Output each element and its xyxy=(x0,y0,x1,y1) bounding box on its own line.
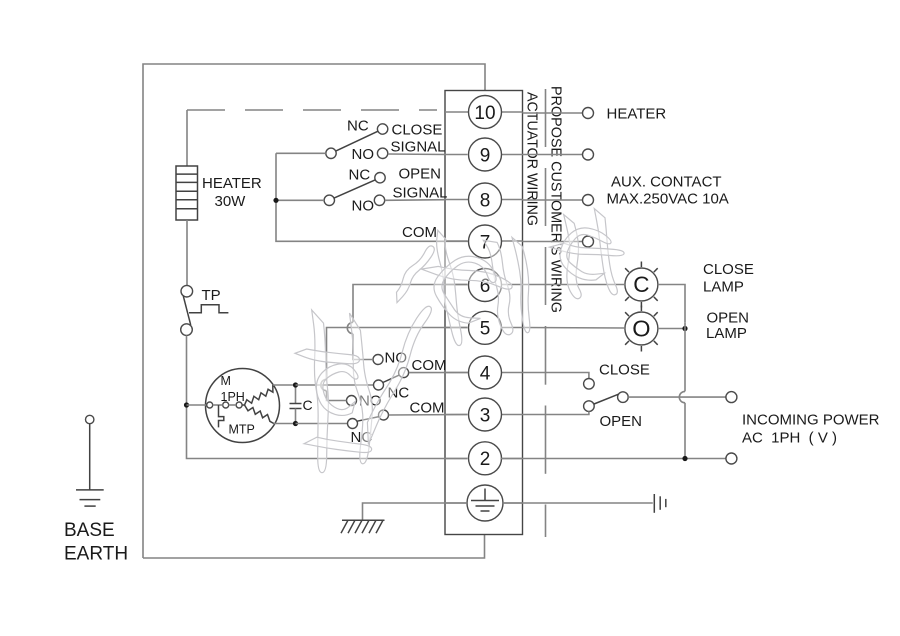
wire lamp O right to bus xyxy=(658,328,685,330)
wire bottom border xyxy=(143,535,485,559)
thermal protector TP xyxy=(181,285,229,335)
svg-text:COM: COM xyxy=(412,357,447,374)
svg-text:AUX. CONTACT: AUX. CONTACT xyxy=(611,174,722,191)
svg-text:BASE: BASE xyxy=(64,520,115,541)
wire limit1 COM to terminal 4 xyxy=(409,372,468,374)
svg-text:10: 10 xyxy=(474,103,495,124)
node incoming N xyxy=(726,453,737,464)
wire terminal 5 to lamp O xyxy=(523,327,625,330)
svg-text:C: C xyxy=(633,272,649,297)
node aux3 xyxy=(583,236,594,247)
wire pivot to incoming L xyxy=(628,396,726,398)
svg-text:EARTH: EARTH xyxy=(64,544,128,565)
earth symbol hatched xyxy=(341,520,385,533)
wire terminal 5 to limit2 NO with hop xyxy=(327,328,468,380)
open button contact xyxy=(584,401,595,412)
wire terminal 6 to lamp C xyxy=(523,284,625,286)
capacitor C xyxy=(290,385,302,424)
wire bus with hop over close wire xyxy=(684,322,686,391)
motor M 1PH xyxy=(187,369,280,443)
wire COM vertical xyxy=(276,153,468,241)
node aux2 xyxy=(583,195,594,206)
open signal switch xyxy=(324,173,385,206)
svg-text:MTP: MTP xyxy=(229,423,255,437)
svg-text:INCOMING POWER: INCOMING POWER xyxy=(742,412,880,429)
wire cap bottom to NC limit2 xyxy=(296,423,348,425)
node incoming L xyxy=(726,392,737,403)
wire TP down to motor junction and terminal 2 xyxy=(187,335,468,458)
wire terminal 4 to close button xyxy=(523,373,589,379)
svg-text:CLOSE: CLOSE xyxy=(599,362,650,379)
lamp O open xyxy=(625,306,658,352)
svg-text:AC 1PH ( V ): AC 1PH ( V ) xyxy=(742,430,837,447)
heater resistor xyxy=(176,166,198,220)
terminal 6 xyxy=(445,269,523,302)
wire limit2 COM to terminal 3 xyxy=(389,414,468,417)
wire terminal 8 right xyxy=(523,199,583,201)
node heater terminal xyxy=(583,108,594,119)
svg-text:HEATER: HEATER xyxy=(202,175,262,192)
wire open pivot left xyxy=(276,199,324,201)
wire terminal 9 right xyxy=(523,154,583,156)
wire motor bottom winding to cap xyxy=(274,423,296,425)
svg-text:OPEN: OPEN xyxy=(707,310,750,327)
wire terminal 7 right xyxy=(523,241,583,243)
terminal 2 xyxy=(445,442,523,475)
svg-text:1PH: 1PH xyxy=(221,390,245,404)
svg-text:MAX.250VAC 10A: MAX.250VAC 10A xyxy=(607,191,729,208)
svg-text:NC: NC xyxy=(347,118,369,135)
wire lamp C right to bus xyxy=(658,285,685,323)
wire cap top to NC limit1 xyxy=(296,384,374,386)
svg-text:LAMP: LAMP xyxy=(703,279,744,296)
base earth symbol xyxy=(76,415,104,506)
terminal 7 xyxy=(445,225,523,258)
svg-text:ACTUATOR WIRING: ACTUATOR WIRING xyxy=(524,92,541,226)
svg-text:M: M xyxy=(221,374,231,388)
close signal switch xyxy=(326,124,388,159)
limit switch 1 xyxy=(373,355,409,391)
earth symbol bars xyxy=(654,494,666,513)
lamp C close xyxy=(625,262,658,308)
svg-text:CLOSE: CLOSE xyxy=(392,122,443,139)
button blade xyxy=(594,394,618,404)
svg-text:LAMP: LAMP xyxy=(706,325,747,342)
watermark xyxy=(295,209,624,473)
terminal 10 xyxy=(445,96,523,129)
wire terminal 6 to limit1 NO with hop xyxy=(353,285,468,323)
terminal 9 xyxy=(445,138,523,171)
svg-text:SIGNAL: SIGNAL xyxy=(393,185,448,202)
wire heater to TP xyxy=(186,220,188,285)
svg-text:TP: TP xyxy=(202,287,221,304)
svg-text:OPEN: OPEN xyxy=(600,413,643,430)
wire motor top winding to cap xyxy=(273,384,296,386)
svg-text:8: 8 xyxy=(480,190,491,211)
dashed boundary top xyxy=(187,109,437,111)
svg-text:COM: COM xyxy=(402,224,437,241)
svg-text:HEATER: HEATER xyxy=(607,106,667,123)
terminal block xyxy=(445,91,523,535)
svg-text:NO: NO xyxy=(352,146,375,163)
svg-text:OPEN: OPEN xyxy=(399,166,442,183)
wire top border xyxy=(143,64,485,558)
svg-text:3: 3 xyxy=(480,405,491,426)
wire ground left xyxy=(363,503,468,520)
node aux1 xyxy=(583,149,594,160)
junction dot motor xyxy=(184,402,189,407)
button pivot xyxy=(618,392,629,403)
wire heater top xyxy=(186,110,188,166)
svg-text:9: 9 xyxy=(480,145,491,166)
wire terminal 10 right xyxy=(523,112,583,114)
wire NO open to terminal 8 xyxy=(385,199,445,202)
svg-text:C: C xyxy=(303,397,313,413)
wire ground right xyxy=(503,502,653,504)
svg-text:CLOSE: CLOSE xyxy=(703,261,754,278)
svg-text:O: O xyxy=(632,316,650,342)
svg-text:2: 2 xyxy=(480,449,491,470)
junction dot cap top xyxy=(293,382,298,387)
junction dot bus bottom xyxy=(682,456,687,461)
wire close pivot left xyxy=(276,152,326,154)
junction dot lamp bus xyxy=(682,326,687,331)
junction dot cap bottom xyxy=(293,421,298,426)
wire NO close to terminal 9 xyxy=(388,153,445,156)
svg-text:SIGNAL: SIGNAL xyxy=(391,139,446,156)
limit switch 2 xyxy=(347,396,389,429)
svg-text:30W: 30W xyxy=(215,193,247,210)
separator customer wiring xyxy=(545,89,547,537)
terminal 5 xyxy=(445,311,523,344)
svg-text:5: 5 xyxy=(480,319,491,340)
wire terminal 2 right xyxy=(501,458,727,460)
ground terminal xyxy=(445,485,523,521)
svg-text:NC: NC xyxy=(349,167,371,184)
wire terminal 3 to open button xyxy=(523,411,589,414)
svg-text:NO: NO xyxy=(352,198,375,215)
terminal 8 xyxy=(445,183,523,216)
junction dot COM xyxy=(273,198,278,203)
svg-text:4: 4 xyxy=(480,363,491,384)
terminal 3 xyxy=(445,398,523,431)
terminal 4 xyxy=(445,356,523,389)
